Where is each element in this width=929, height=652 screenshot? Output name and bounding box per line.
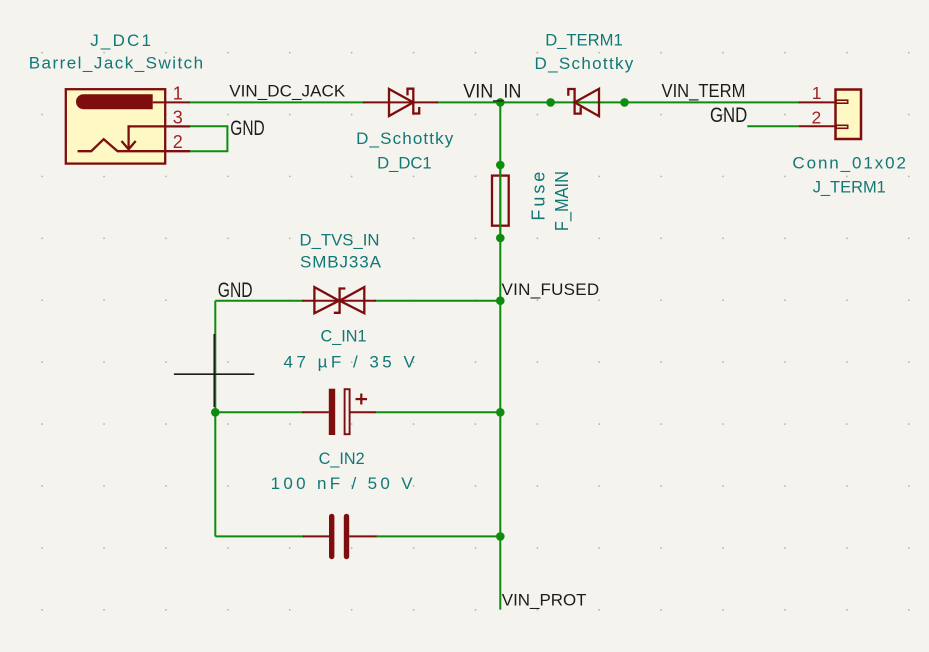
wire conn J_TERM1 pin2 GND stub: [747, 125, 798, 127]
svg-text:3: 3: [173, 107, 183, 127]
diode D_TERM1 D_Schottky: [568, 89, 599, 116]
wire C_IN1 to right rail: [375, 411, 501, 413]
svg-text:D_TERM1: D_TERM1: [545, 30, 623, 49]
junction VIN_IN at main rail: [496, 98, 505, 107]
svg-text:Conn_01x02: Conn_01x02: [792, 153, 906, 172]
svg-text:C_IN1: C_IN1: [321, 327, 367, 346]
wire left rail to C_IN1: [215, 411, 303, 413]
svg-text:D_DC1: D_DC1: [377, 153, 432, 172]
svg-text:1: 1: [812, 83, 822, 103]
svg-text:Barrel_Jack_Switch: Barrel_Jack_Switch: [29, 54, 203, 73]
svg-text:VIN_IN: VIN_IN: [463, 82, 521, 103]
connector J_TERM1 Conn_01x02 body: [799, 90, 861, 140]
wire C_IN2 to right rail: [376, 535, 501, 537]
svg-text:C_IN2: C_IN2: [319, 449, 365, 468]
svg-text:VIN_DC_JACK: VIN_DC_JACK: [229, 81, 346, 100]
diode D_DC1 D_Schottky: [363, 89, 438, 116]
wire jack GND loop pin3 to pin2: [190, 126, 227, 151]
cursor crosshair: [174, 334, 254, 407]
junction right rail at C_IN2: [496, 532, 505, 541]
junction top of fuse F_MAIN: [496, 161, 505, 170]
wire VIN_DC_JACK jack to D_DC1: [190, 101, 365, 103]
svg-text:2: 2: [173, 132, 183, 152]
wire GND to TVS left: [215, 300, 303, 302]
svg-text:1: 1: [173, 83, 183, 103]
svg-text:F_MAIN: F_MAIN: [552, 171, 573, 231]
svg-text:VIN_PROT: VIN_PROT: [502, 591, 587, 610]
svg-text:GND: GND: [230, 116, 264, 140]
svg-text:J_TERM1: J_TERM1: [813, 178, 886, 197]
svg-text:GND: GND: [710, 103, 747, 127]
wire GND left vertical rail: [214, 301, 216, 537]
wire VIN_IN / VIN_TERM rail D_DC1 to J_TERM1: [437, 101, 800, 103]
wire left rail to C_IN2: [215, 535, 303, 537]
junction right rail at C_IN1: [496, 408, 505, 417]
junction right of D_TERM1: [620, 98, 629, 107]
junction bottom of fuse F_MAIN: [496, 234, 505, 243]
capacitor C_IN1 polarized: [302, 389, 376, 435]
fuse F_MAIN: [492, 165, 509, 238]
svg-text:GND: GND: [218, 278, 253, 302]
wire main vertical VIN_IN to VIN_PROT: [499, 102, 501, 609]
diode D_TVS_IN SMBJ33A: [302, 287, 376, 313]
svg-text:VIN_FUSED: VIN_FUSED: [502, 280, 600, 299]
connector J_DC1 barrel jack body: [66, 89, 190, 163]
junction VIN_FUSED node: [496, 296, 505, 305]
junction left of D_TERM1: [546, 98, 555, 107]
svg-text:D_TVS_IN: D_TVS_IN: [300, 231, 380, 250]
wire TVS right to VIN_FUSED: [375, 300, 501, 302]
svg-text:D_Schottky: D_Schottky: [356, 129, 454, 148]
capacitor C_IN2: [303, 516, 377, 556]
junction left rail at C_IN1: [211, 408, 220, 417]
svg-text:2: 2: [812, 108, 822, 128]
svg-text:SMBJ33A: SMBJ33A: [300, 253, 382, 272]
svg-text:D_Schottky: D_Schottky: [535, 54, 634, 73]
svg-text:VIN_TERM: VIN_TERM: [662, 81, 746, 102]
